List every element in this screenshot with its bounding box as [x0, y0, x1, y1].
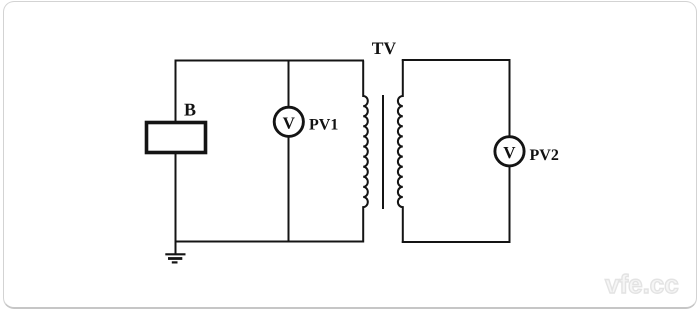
svg-text:B: B [184, 100, 196, 120]
wire: left vertical upper segment [175, 61, 177, 122]
watermark vfe.cc [605, 271, 679, 297]
wire: bottom wire of right loop [402, 241, 511, 243]
wire: top wire of right loop [402, 59, 511, 61]
voltmeter PV1 [274, 107, 303, 136]
wire: top wire of left loop [175, 60, 365, 62]
svg-text:PV2: PV2 [529, 147, 558, 164]
wire: PV1 branch upper [288, 61, 290, 108]
wire: PV1 branch lower [288, 137, 290, 243]
svg-text:TV: TV [372, 38, 397, 58]
svg-text:PV1: PV1 [309, 117, 338, 134]
voltmeter PV2 [495, 137, 524, 166]
ground stem [175, 242, 177, 255]
box B (block element) [147, 123, 206, 153]
transformer core line [382, 95, 384, 209]
ground bar 3 [172, 261, 178, 263]
wire: right vertical upper segment [509, 60, 511, 137]
ground bar 1 [165, 253, 185, 255]
svg-text:V: V [503, 143, 516, 162]
wire: right vertical lower segment [509, 166, 511, 243]
transformer TV primary winding [363, 61, 368, 243]
svg-text:V: V [283, 114, 296, 133]
wire: bottom wire of left loop [175, 241, 365, 243]
ground bar 2 [168, 257, 182, 260]
wire: left vertical lower segment [175, 154, 177, 243]
transformer TV secondary winding [398, 60, 403, 244]
